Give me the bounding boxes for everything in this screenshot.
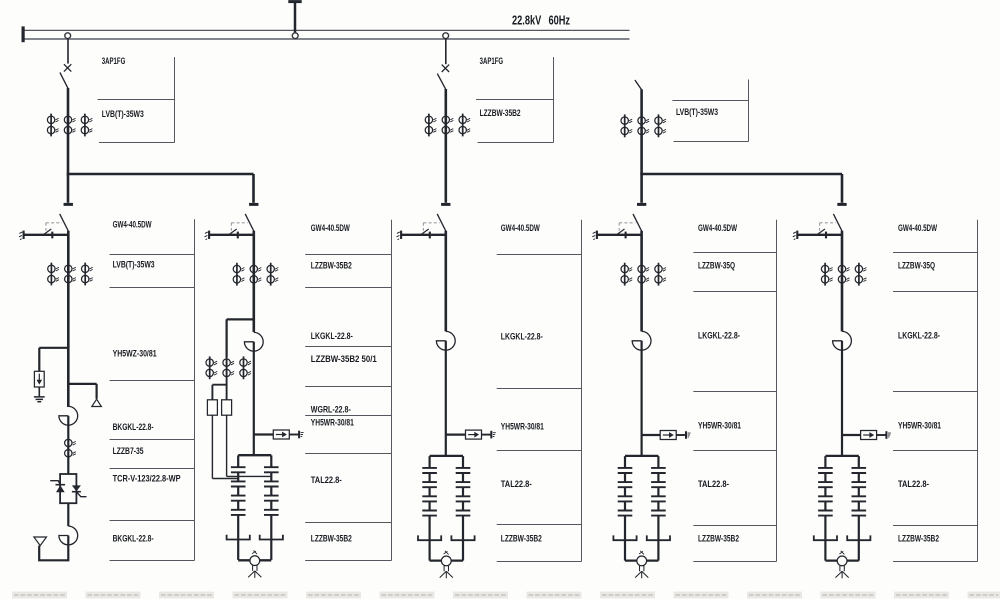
label box T1 separator 2 (99, 142, 175, 144)
circuit breaker 3AP1FG (feeder 2) (442, 65, 449, 72)
svg-text:TAL22.8-: TAL22.8- (501, 479, 532, 489)
svg-text:LKGKL-22.8-: LKGKL-22.8- (311, 331, 353, 341)
capacitor string left (col 3) (418, 456, 441, 560)
disconnect switch GW4-40.5DW with earthing switch (col 4) (592, 204, 646, 239)
svg-text:TAL22.8-: TAL22.8- (898, 479, 929, 489)
label box 4 separators (693, 252, 776, 254)
disconnect switch GW4-40.5DW with earthing switch (col 5) (793, 204, 847, 239)
label box T3 vertical (748, 80, 750, 142)
CT LZZB7-35 (col 1, two single CTs) (65, 439, 76, 446)
wire reactor down (col 3) (445, 341, 447, 456)
capacitor string right (col 4) (647, 456, 670, 560)
reactor (col 1 upper) (59, 406, 78, 425)
wire reactor down (col 2) (253, 342, 255, 455)
capacitor string right (col 3) (451, 456, 474, 560)
svg-text:YH5WR-30/81: YH5WR-30/81 (311, 418, 354, 428)
label box 4 vertical (776, 220, 778, 562)
svg-text:LKGKL-22.8-: LKGKL-22.8- (501, 332, 543, 342)
label box 1 vertical (194, 219, 196, 560)
thyristor right (conducting down) (72, 485, 87, 496)
svg-text:YH5WZ-30/81: YH5WZ-30/81 (113, 348, 157, 358)
thyristor valve TCR-V-123/22.8-WP enclosure (60, 474, 76, 503)
discharge coil + earth fork (col 4) (635, 551, 648, 578)
svg-text:TAL22.8-: TAL22.8- (311, 475, 342, 485)
discharge coil + earth fork (col 2) (248, 551, 261, 578)
node: feeder1-bus junction circle (65, 33, 71, 39)
svg-text:LZZBW-35B2 50/1: LZZBW-35B2 50/1 (311, 354, 377, 364)
CT group LZZBW-35B2 (col 2) (233, 263, 278, 286)
label box T3 separator 2 (674, 141, 749, 143)
wire resistor 2 to H-bridge tap (227, 415, 272, 476)
circuit breaker 3AP1FG (feeder 1) (64, 64, 71, 71)
label box 3 vertical (581, 220, 583, 562)
discharge coil + earth fork (col 3) (440, 551, 453, 578)
label box 2 separators (305, 254, 391, 256)
reactor LKGKL-22.8- (col 5) (833, 331, 852, 350)
wire resistor 1 to H-bridge tap (212, 415, 238, 478)
CT group LZZBW-35B2 50/1 (col 2 left leg) (206, 356, 251, 379)
svg-text:GW4-40.5DW: GW4-40.5DW (501, 223, 540, 233)
disconnect blade feeder 1 (60, 72, 68, 88)
earth symbol (col 1 arrester) (34, 397, 45, 402)
disconnect switch GW4-40.5DW with earthing switch (col 2) (205, 204, 259, 239)
discharge coil + earth fork (col 5) (836, 551, 849, 578)
capacitor string right (col 2) (260, 455, 283, 560)
svg-text:3AP1FG: 3AP1FG (102, 56, 126, 66)
svg-text:LZZB7-35: LZZB7-35 (113, 446, 144, 456)
wire valve to reactor (col 1 lower) (67, 503, 69, 526)
wire reactor down (col 4) (640, 341, 642, 456)
svg-text:LKGKL-22.8-: LKGKL-22.8- (698, 331, 740, 341)
wire branch to arrester (col 1) (39, 348, 68, 372)
cap bank bottom bar (col 3) (430, 559, 463, 561)
svg-text:BKGKL-22.8-: BKGKL-22.8- (113, 534, 154, 544)
svg-text:LVB(T)-35W3: LVB(T)-35W3 (676, 107, 718, 117)
node: feeder2-bus junction circle (443, 33, 449, 39)
svg-text:LZZBW-35Q: LZZBW-35Q (698, 260, 735, 270)
wire drop to column 5 (841, 174, 844, 203)
label box 5 separators (893, 252, 978, 254)
label box T1 vertical (174, 57, 176, 143)
svg-text:LZZBW-35B2: LZZBW-35B2 (698, 534, 739, 544)
CT group LZZBW-35Q (col 5) (821, 263, 866, 286)
label box 2 vertical (391, 220, 393, 561)
busbar 22.8kV lower line (23, 38, 630, 40)
svg-text:WGRL-22.8-: WGRL-22.8- (311, 405, 351, 415)
svg-text:LZZBW-35B2: LZZBW-35B2 (311, 260, 352, 270)
capacitor bank TAL22.8- (col 4) (613, 456, 670, 578)
label box T1 separator 1 (98, 99, 175, 101)
surge arrester YH5WR-30/81 (col 5) (842, 434, 861, 436)
capacitor bank TAL22.8- (col 5) (814, 456, 871, 578)
reactor LKGKL-22.8- (col 3) (436, 331, 455, 350)
T-bar end column 5 (837, 203, 846, 205)
svg-text:LZZBW-35B2: LZZBW-35B2 (480, 108, 521, 118)
svg-text:LZZBW-35B2: LZZBW-35B2 (311, 534, 352, 544)
thyristor left (conducting up) (50, 481, 65, 493)
capacitor string right (col 5) (847, 456, 870, 560)
svg-text:3AP1FG: 3AP1FG (480, 56, 504, 66)
svg-text:LVB(T)-35W3: LVB(T)-35W3 (113, 259, 155, 269)
wire feeder 3 split header (640, 173, 842, 176)
svg-text:YH5WR-30/81: YH5WR-30/81 (698, 421, 741, 431)
wire drop to column 4 (640, 174, 643, 203)
wire col5 main drop (841, 231, 844, 332)
node: stub-bus junction circle (292, 33, 298, 39)
svg-text:GW4-40.5DW: GW4-40.5DW (698, 223, 737, 233)
label box T2 separator 1 (476, 99, 554, 101)
disconnect switch GW4-40.5DW with earthing switch (col 3) (397, 204, 451, 239)
busbar 22.8kV upper line (23, 29, 630, 31)
svg-text:GW4-40.5DW: GW4-40.5DW (113, 219, 152, 229)
cap bank bottom bar (col 5) (825, 559, 858, 561)
wire col4 main drop (640, 231, 643, 332)
label box 5 vertical (977, 220, 979, 562)
svg-text:TAL22.8-: TAL22.8- (698, 479, 729, 489)
cap bank top bar (col 4) (625, 455, 658, 457)
cap bank top bar (col 5) (825, 455, 858, 457)
label box T2 separator 2 (478, 142, 554, 144)
disconnect switch GW4-40.5DW with earthing switch (col 1) (19, 204, 73, 239)
delta winding symbol (col 1 upper) (92, 399, 102, 406)
bus left terminator bar (22, 26, 25, 42)
wire stub to resistor 1 (col 2) (212, 385, 226, 400)
wire col2 main drop (253, 231, 256, 332)
label box 1 separators (110, 254, 195, 256)
T-bar end column 1 (64, 203, 73, 205)
wire feeder 1 split header (67, 173, 254, 176)
resistor WGRL-22.8- unit 1 (207, 400, 217, 415)
cap bank bottom bar (col 4) (625, 559, 658, 561)
resistor WGRL-22.8- unit 2 (222, 400, 232, 415)
svg-text:GW4-40.5DW: GW4-40.5DW (311, 223, 350, 233)
reactor (col 2) (244, 332, 263, 351)
disconnect blade feeder 2 (437, 74, 446, 90)
cap bank top bar (col 2) (238, 454, 271, 456)
wire drop to column 1 (67, 174, 70, 203)
capacitor string left (col 5) (814, 456, 837, 560)
delta winding symbol (col 1 lower, pointing down) (34, 537, 47, 546)
T-bar end column 2 (249, 203, 258, 205)
CT group LZZBW-35Q (col 4) (621, 263, 666, 286)
svg-text:22.8kV 60Hz: 22.8kV 60Hz (512, 13, 570, 27)
wire left leg below CTs (col 2) (226, 319, 228, 399)
wire branch to delta winding (col 1) (68, 384, 96, 399)
svg-text:YH5WR-30/81: YH5WR-30/81 (501, 422, 544, 432)
CT group LVB(T)-35W3 (feeder 1) (47, 114, 92, 137)
wire arrester to earth (col 1) (38, 387, 40, 396)
reactor (col 1 lower) (59, 526, 78, 545)
svg-text:GW4-40.5DW: GW4-40.5DW (898, 223, 937, 233)
CT group LVB(T)-35W3 (feeder 3) (621, 114, 666, 137)
cap bank top bar (col 3) (430, 455, 463, 457)
wire feeder 1 drop (67, 88, 70, 174)
wire feeder 3 drop (640, 89, 643, 174)
svg-text:YH5WR-30/81: YH5WR-30/81 (898, 421, 941, 431)
reactor LKGKL-22.8- (col 4) (632, 331, 651, 350)
stub top T-bar (288, 0, 301, 3)
wire col1 main drop (67, 231, 70, 407)
wire bus to breaker (67, 39, 69, 64)
capacitor bank TAL22.8- (col 3) (418, 456, 475, 578)
wire branch to left filter leg (col 2) (227, 319, 254, 357)
wire reactor to CTs (col 1) (67, 416, 69, 474)
T-bar end column 4 (637, 203, 646, 205)
surge arrester YH5WR-30/81 (col 3) (446, 433, 466, 435)
svg-text:LZZBW-35Q: LZZBW-35Q (898, 260, 935, 270)
incoming stub from grid (top center) (294, 2, 297, 35)
T-bar end column 3 (441, 203, 450, 205)
surge arrester YH5WR-30/81 (col 4) (642, 434, 661, 436)
label box 3 separators (497, 254, 582, 256)
svg-text:BKGKL-22.8-: BKGKL-22.8- (113, 422, 154, 432)
capacitor string left (col 2) (227, 455, 250, 560)
surge arrester YH5WZ (col 1, vertical) (34, 371, 44, 387)
CT group LVB(T)-35W3 (col 1) (48, 263, 93, 286)
wire col3 main drop (444, 231, 447, 332)
svg-text:LKGKL-22.8-: LKGKL-22.8- (898, 331, 940, 341)
wire bus to breaker (445, 39, 447, 65)
wire feeder 2 drop (444, 89, 447, 203)
svg-text:LZZBW-35B2: LZZBW-35B2 (898, 534, 939, 544)
wire drop to column 2 (252, 174, 255, 203)
cap bank bottom bar (col 2) (238, 559, 271, 561)
capacitor string left (col 4) (613, 456, 636, 560)
capacitor bank TAL22.8- (col 2) (227, 455, 283, 578)
disconnect blade feeder 3 (635, 80, 642, 90)
label box T3 separator 1 (672, 100, 748, 102)
CT group LZZBW-35B2 (feeder 2) (425, 114, 470, 137)
label box T2 vertical (553, 57, 555, 143)
surge arrester YH5WR-30/81 (col 2) (254, 433, 273, 435)
wire reactor down (col 5) (841, 341, 843, 456)
svg-text:TCR-V-123/22.8-WP: TCR-V-123/22.8-WP (113, 473, 181, 483)
svg-text:LVB(T)-35W3: LVB(T)-35W3 (102, 109, 144, 119)
wire reactor to delta (col 1 bottom U) (39, 536, 68, 561)
svg-text:LZZBW-35B2: LZZBW-35B2 (501, 534, 542, 544)
